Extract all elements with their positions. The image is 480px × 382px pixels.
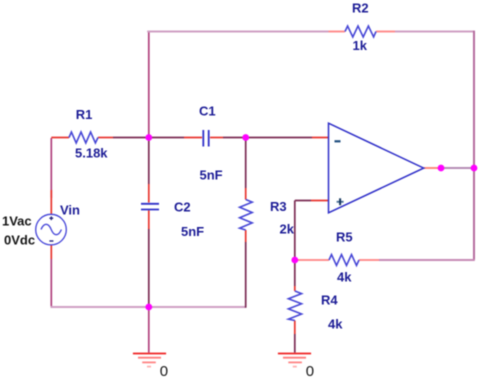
wire: C2 bottom to ground rail (148, 229, 150, 307)
wire: bottom ground rail horizontal (51, 306, 246, 308)
svg-text:R1: R1 (76, 107, 93, 122)
svg-text:C2: C2 (174, 200, 191, 215)
svg-text:Vin: Vin (60, 203, 80, 218)
resistor R3 (240, 188, 253, 242)
wire: R4 bottom to ground 2 (294, 334, 296, 353)
ground 0 (left) (133, 354, 166, 367)
wire: top rail left segment (node A to R2) (147, 31, 328, 33)
svg-text:5nF: 5nF (181, 224, 204, 239)
voltage source Vin (VAC symbol) (36, 214, 67, 245)
wire: node A down to C2 (148, 138, 150, 185)
wire: right rail vertical (top rail down to R5 row) (473, 31, 475, 260)
svg-text:4k: 4k (328, 317, 343, 332)
junction at op-amp output (438, 165, 445, 172)
svg-text:R2: R2 (352, 1, 369, 16)
wire: node A to C1 left lead (149, 137, 184, 139)
wire: Vin bottom pin stub (50, 245, 52, 259)
svg-text:2k: 2k (280, 222, 295, 237)
svg-text:0: 0 (160, 363, 168, 380)
svg-text:C1: C1 (199, 104, 216, 119)
wire: node C down to R3 (245, 138, 247, 189)
wire: C1 right lead to node C (223, 137, 246, 139)
capacitor C2 (141, 184, 159, 229)
svg-text:R5: R5 (336, 230, 353, 245)
wire: op-amp non-inverting input to corner (295, 200, 311, 202)
resistor R2 (329, 26, 396, 37)
capacitor C1 (184, 130, 223, 147)
svg-text:5nF: 5nF (200, 168, 223, 183)
resistor R1 (51, 132, 113, 143)
svg-text:4k: 4k (337, 270, 352, 285)
resistor R5 (295, 255, 379, 266)
svg-text:1Vac: 1Vac (2, 214, 32, 229)
wire: left rail Vin top to R1 corner (50, 138, 52, 198)
wire: R3 bottom to ground rail corner (245, 242, 247, 308)
wire: node B down to R4 (294, 260, 296, 286)
svg-text:0Vdc: 0Vdc (4, 233, 35, 248)
wire: corner down to node B (294, 201, 296, 261)
wire: left rail Vin bottom to ground rail (50, 259, 52, 307)
svg-text:1k: 1k (353, 38, 368, 53)
resistor R4 (288, 286, 301, 334)
junction node B (291, 257, 298, 264)
junction at right rail output (471, 165, 478, 172)
op-amp U1 (311, 123, 441, 213)
wire: Vin top pin stub (50, 190, 52, 214)
wire: node C to op-amp inverting input (246, 137, 312, 139)
junction node at ground rail (145, 304, 152, 311)
svg-text:R4: R4 (321, 293, 338, 308)
svg-text:5.18k: 5.18k (75, 146, 108, 161)
wire: node A vertical up to top rail (148, 32, 150, 138)
junction node C (242, 134, 249, 141)
wire: op-amp output to right rail (441, 167, 475, 169)
junction node A (145, 134, 152, 141)
wire: top rail right segment (R2 to right rail) (395, 31, 475, 33)
wire: ground rail node down to ground 1 (148, 307, 150, 353)
wire: R5 row from right rail to R5 (379, 259, 475, 261)
ground 0 (right) (278, 354, 311, 367)
svg-text:0: 0 (306, 363, 314, 380)
svg-text:R3: R3 (270, 199, 287, 214)
wire: R1 to node A (113, 137, 149, 139)
